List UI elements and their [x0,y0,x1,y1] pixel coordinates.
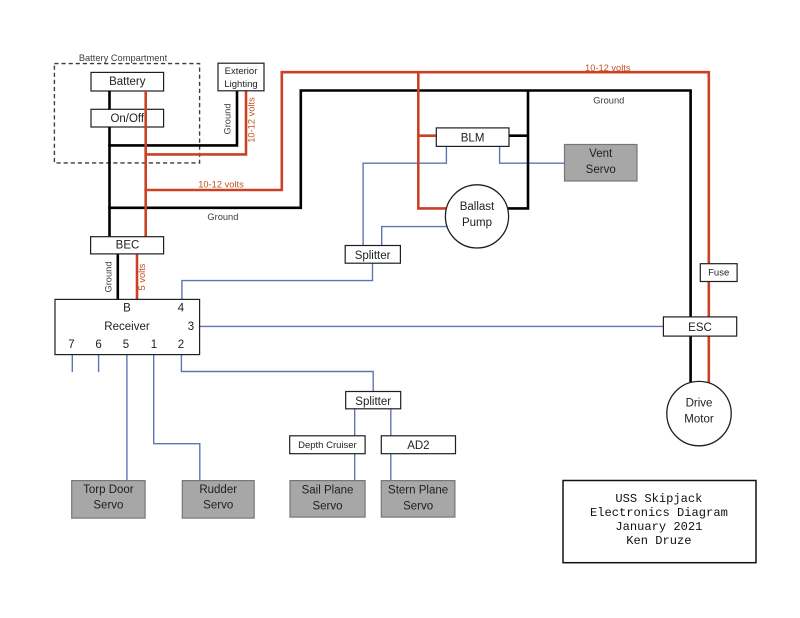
receiver box [55,299,200,354]
svg-text:Servo: Servo [586,164,616,176]
svg-text:4: 4 [178,303,185,315]
wire: BLM / ballast pump 10-12v branch (red) [418,72,446,208]
wire: receiver pin 6 stub (blue) [98,355,100,373]
svg-text:Ground: Ground [223,103,233,134]
AD2 box [381,436,455,454]
svg-text:Torp Door: Torp Door [83,484,134,496]
wire: BLM to vent servo (blue) [500,146,565,163]
wire: main ground trunk (black) [108,91,690,383]
torp door servo box [72,481,145,518]
ballast pump circle [445,185,508,248]
wire: receiver pin 3 to ESC (blue) [200,325,664,327]
BLM box [436,128,509,146]
svg-text:Battery: Battery [109,76,146,88]
svg-text:Depth Cruiser: Depth Cruiser [298,440,357,451]
wire: receiver pin 2 to splitter 2 (blue) [181,355,373,392]
svg-text:Ground: Ground [207,212,238,222]
on/off box [91,109,164,127]
svg-text:Vent: Vent [589,148,613,160]
svg-text:Servo: Servo [403,501,433,513]
svg-text:10-12 volts: 10-12 volts [198,179,244,189]
drive motor circle [667,381,731,445]
splitter box (lower) [346,392,401,409]
sail plane servo box [290,481,365,517]
fuse box [700,264,737,282]
svg-text:Lighting: Lighting [224,79,257,90]
rudder servo box [182,481,254,518]
wire: battery to on/off ground (black) [108,91,111,109]
wire: main 10-12v trunk (red) [144,72,708,383]
svg-text:1: 1 [151,339,157,351]
svg-text:ESC: ESC [688,322,712,334]
wire: splitter 2 to AD2 (blue) [390,409,392,436]
svg-text:Ballast: Ballast [460,201,495,213]
svg-text:Exterior: Exterior [225,66,258,77]
svg-text:Motor: Motor [684,414,714,426]
svg-text:January 2021: January 2021 [615,520,702,534]
svg-text:2: 2 [178,339,184,351]
svg-text:B: B [123,303,131,315]
exterior lighting box [218,63,264,91]
vent servo box [565,145,638,182]
BEC box [91,237,164,254]
wire: on/off to BEC ground (black) [108,127,111,237]
battery compartment dashed box [54,64,199,163]
svg-text:5 volts: 5 volts [137,263,147,290]
svg-text:Sail Plane: Sail Plane [302,485,354,497]
svg-text:USS Skipjack: USS Skipjack [615,492,702,506]
svg-text:6: 6 [95,339,101,351]
wire: ballast pump ground branch (black) [508,91,528,209]
svg-text:Battery Compartment: Battery Compartment [79,53,168,63]
svg-text:7: 7 [68,339,74,351]
wire: receiver pin 1 to rudder servo (blue) [154,355,200,481]
svg-text:Drive: Drive [686,398,713,410]
svg-text:Rudder: Rudder [199,484,237,496]
svg-text:BEC: BEC [116,239,140,251]
wire: ballast pump to splitter (blue) [382,227,448,246]
wire: receiver pin 5 to torp door servo (blue) [126,355,128,481]
svg-text:BLM: BLM [461,133,485,145]
svg-text:3: 3 [188,321,194,333]
svg-text:Servo: Servo [312,501,342,513]
svg-text:Pump: Pump [462,217,492,229]
wire: BEC to receiver ground (black) [117,253,120,299]
svg-text:Ground: Ground [593,95,624,105]
svg-text:10-12 volts: 10-12 volts [585,63,631,73]
svg-text:10-12 volts: 10-12 volts [247,97,257,143]
svg-text:Ken Druze: Ken Druze [626,534,691,548]
wire: battery 10-12v to BEC (red) [144,91,147,237]
wire: AD2 to stern plane servo (blue) [390,454,392,481]
svg-text:5: 5 [123,339,129,351]
svg-text:Splitter: Splitter [355,250,391,262]
battery box [91,72,164,91]
wire: depth cruiser to sail plane servo (blue) [354,454,356,481]
svg-text:Ground: Ground [104,261,114,292]
splitter box (upper) [345,246,400,264]
wire: splitter to receiver pin 4 (blue) [182,262,373,299]
depth cruiser box [290,436,365,454]
wire: BLM to splitter (blue) [363,146,446,245]
wire: receiver pin 7 stub (blue) [71,355,73,373]
wire: splitter 2 to depth cruiser (blue) [354,409,356,436]
wire: BLM 10-12v stub (red) [418,134,436,137]
ESC box [663,317,736,336]
wire: BLM ground stub (black) [509,134,528,137]
wire: ground branch to exterior lighting (black) [108,91,237,146]
svg-text:Receiver: Receiver [104,321,150,333]
svg-text:Servo: Servo [203,499,233,511]
svg-text:AD2: AD2 [407,440,429,452]
wire: 10-12v branch to exterior lighting (red) [144,91,246,155]
svg-text:On/Off: On/Off [110,113,144,125]
svg-text:Electronics Diagram: Electronics Diagram [590,506,728,520]
svg-text:Servo: Servo [93,499,123,511]
wire: BEC to receiver 5 volts (red) [136,253,139,299]
svg-text:Splitter: Splitter [355,396,391,408]
stern plane servo box [381,481,455,517]
title block box [563,481,756,563]
svg-text:Fuse: Fuse [708,268,729,279]
svg-text:Stern Plane: Stern Plane [388,485,448,497]
